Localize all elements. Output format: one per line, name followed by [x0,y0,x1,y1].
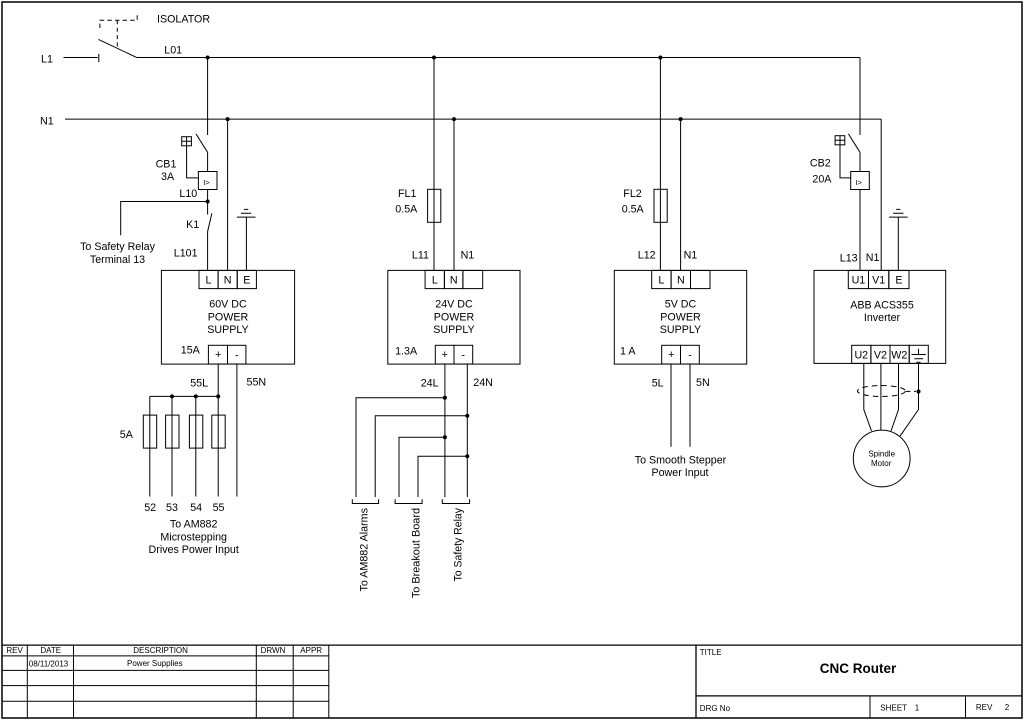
svg-text:60V DC: 60V DC [209,299,247,311]
wire L01 drop to FL1 [433,58,435,271]
revision table row lines [2,656,329,701]
PSU1 label 60V DC POWER SUPPLY [207,299,248,336]
svg-text:+: + [215,349,221,361]
svg-text:To Breakout Board: To Breakout Board [410,508,422,598]
wire 24L to breakout board [399,437,445,497]
svg-text:K1: K1 [186,219,199,231]
svg-text:N1: N1 [40,115,54,127]
svg-text:L11: L11 [412,250,429,262]
svg-text:N: N [224,275,232,287]
title block left divider [695,645,697,718]
svg-text:L12: L12 [638,249,656,261]
svg-text:CB2: CB2 [810,158,831,170]
svg-text:To Safety Relay: To Safety Relay [80,241,156,253]
wire 24L [444,364,446,497]
wire 24N [466,364,468,497]
svg-text:+: + [442,349,448,361]
wire N1 drop to PSU3 N [680,119,682,270]
junction fuse bus 2 [194,394,198,398]
junction earth shield tap [916,389,920,393]
svg-text:ISOLATOR: ISOLATOR [157,13,210,25]
svg-text:SUPPLY: SUPPLY [207,324,248,336]
svg-text:55: 55 [213,502,225,514]
svg-text:08/11/2013: 08/11/2013 [29,660,69,669]
junction 24N tap 2 [465,454,469,458]
svg-text:I>: I> [856,178,863,187]
junction on N1 at 60V branch [226,117,230,121]
wire 55L fuse bus [150,395,218,397]
wire 24L to AM882 alarms [356,398,445,497]
PSU3 label 5V DC POWER SUPPLY [660,299,701,336]
svg-text:DESCRIPTION: DESCRIPTION [133,646,188,655]
fuse F52 [143,415,156,448]
title block middle rule [696,695,1022,697]
svg-text:-: - [688,349,692,361]
svg-text:Microstepping: Microstepping [160,531,227,543]
junction on L01 at FL1 branch [432,56,436,60]
svg-text:L01: L01 [164,45,182,57]
svg-text:To AM882: To AM882 [170,519,218,531]
terminal bracket AM882 alarms [352,499,378,503]
wire 55N from PSU1 - [236,364,238,497]
inverter input terminals U1 V1 E [848,270,909,288]
fuse F54 [189,415,202,448]
wire fuse drop 54 [195,396,197,496]
svg-text:L13: L13 [840,252,858,264]
svg-text:24L: 24L [421,377,439,389]
wire L1 feed [64,57,98,59]
svg-text:REV: REV [6,646,23,655]
isolator linkage vertical (dashed) [116,20,118,48]
svg-text:CB1: CB1 [156,158,177,170]
svg-text:To Safety Relay: To Safety Relay [452,507,464,581]
revision table headers [6,646,322,655]
note To Safety Relay Terminal 13 [80,241,156,266]
junction fuse bus 3 [216,394,220,398]
wire L101 to PSU1 L terminal [207,232,209,271]
PSU3 input terminals L N blank [652,270,710,288]
junction 24L tap 2 [443,435,447,439]
svg-text:5L: 5L [652,378,664,390]
wire fuse drop 55 [217,396,219,496]
wire V2 phase to motor [880,363,882,430]
breaker CB1 aux link wire [187,146,199,178]
junction 24L tap 1 [443,396,447,400]
earth symbol in inverter output terminal [912,349,926,363]
svg-text:DRWN: DRWN [261,646,286,655]
wire 5L [670,364,672,447]
svg-text:FL2: FL2 [623,188,641,200]
breaker CB2 auxiliary contact box [835,136,845,145]
svg-text:SHEET: SHEET [880,704,907,713]
terminal bracket breakout board [395,499,422,503]
svg-text:N: N [677,275,685,287]
svg-text:POWER: POWER [434,311,475,323]
svg-text:2: 2 [1005,703,1010,712]
wire N1 bus [65,118,881,120]
wire 24N to breakout board [418,456,467,497]
svg-text:DATE: DATE [40,646,61,655]
junction on N1 at 24V branch [452,117,456,121]
motor M1 label Spindle Motor [868,450,895,468]
wire L10 [207,190,209,202]
revision table column lines [27,645,329,718]
note To AM882 Microstepping Drives Power Input [149,519,239,556]
svg-text:APPR: APPR [300,646,322,655]
wire N1 drop to PSU2 N [453,119,455,270]
svg-text:3A: 3A [161,171,175,183]
wire CB2 blade to trip unit [859,152,861,171]
wire into K1 [207,202,209,215]
svg-text:53: 53 [166,502,178,514]
svg-text:SUPPLY: SUPPLY [660,324,701,336]
svg-text:V2: V2 [874,349,887,361]
svg-text:54: 54 [190,502,202,514]
svg-text:1: 1 [915,704,920,713]
svg-text:To AM882 Alarms: To AM882 Alarms [359,508,371,592]
svg-text:L101: L101 [174,248,198,260]
svg-text:N1: N1 [461,249,475,261]
isolator switch blade [99,39,137,57]
junction on L01 at CB1 branch [206,56,210,60]
isolator fixed contact [98,54,100,63]
power supply PSU2 24V box [388,270,520,364]
svg-text:+: + [668,349,674,361]
earth symbol for inverter E terminal [889,209,908,270]
svg-text:0.5A: 0.5A [395,203,418,215]
svg-text:REV: REV [976,703,993,712]
svg-text:N: N [450,275,458,287]
breaker CB2 blade [848,134,860,152]
power supply PSU3 5V box [614,270,746,364]
svg-text:SUPPLY: SUPPLY [433,324,474,336]
sheet cell divider [869,696,871,718]
inverter output terminals U2 V2 W2 earth [852,345,929,363]
svg-text:0.5A: 0.5A [622,203,645,215]
svg-text:I>: I> [203,178,210,187]
svg-text:L: L [432,275,438,287]
title block top rule [2,644,1022,646]
motor M1 spindle circle [853,430,910,487]
svg-text:L: L [206,275,212,287]
svg-text:-: - [461,349,465,361]
svg-text:W2: W2 [891,349,907,361]
PSU1 output terminals + - [208,345,246,364]
wire W2 phase to motor [891,363,899,431]
cable shield ellipse (dashed) [858,386,906,397]
svg-text:Drives Power Input: Drives Power Input [149,544,239,556]
junction on N1 at 5V branch [679,117,683,121]
svg-text:L10: L10 [179,188,197,200]
junction 24N tap 1 [465,414,469,418]
svg-text:Power Input: Power Input [651,467,708,479]
svg-text:L1: L1 [41,54,53,66]
svg-text:20A: 20A [812,173,832,185]
svg-text:E: E [243,275,250,287]
wire 24N to AM882 alarms [375,416,467,497]
svg-text:Terminal 13: Terminal 13 [90,254,145,266]
wire fuse drop 53 [171,396,173,496]
svg-text:5A: 5A [120,429,134,441]
fuse FL1 [428,189,441,222]
PSU2 input terminals L N blank [425,270,483,288]
wire stub to safety relay [121,202,208,236]
wire 55L from PSU1 + [217,364,219,396]
breaker CB1 blade [196,134,208,152]
PSU1 input terminals L N E [199,270,256,288]
svg-text:Inverter: Inverter [864,312,901,324]
svg-text:1.3A: 1.3A [395,345,418,357]
svg-text:24N: 24N [473,377,493,389]
svg-text:Spindle: Spindle [868,450,895,459]
PSU3 output terminals + - [662,345,700,364]
svg-text:U2: U2 [854,349,868,361]
shield bond link (dashed) [906,390,916,392]
fuse F53 [166,415,179,448]
inverter label ABB ACS355 Inverter [850,299,914,324]
svg-text:TITLE: TITLE [700,648,722,657]
wire earth to motor [918,363,920,409]
svg-text:-: - [235,349,239,361]
svg-text:U1: U1 [852,275,866,287]
PSU2 output terminals + - [435,345,472,364]
power supply PSU1 60V box [161,270,294,364]
svg-text:5N: 5N [696,377,710,389]
svg-text:POWER: POWER [660,311,701,323]
breaker CB1 thermal trip box [198,172,217,190]
svg-text:55L: 55L [190,377,208,389]
svg-text:POWER: POWER [208,311,249,323]
rev cell divider [965,696,967,718]
wire fuse drop 52 [149,396,151,496]
label SHEET and number 1 [880,704,919,713]
PSU2 label 24V DC POWER SUPPLY [433,299,474,336]
svg-text:N1: N1 [866,252,880,264]
breaker CB2 aux link wire [840,145,851,178]
wire N1 drop to inverter V1 [880,119,882,270]
svg-text:Motor: Motor [871,459,892,468]
wire CB1 blade to trip unit [207,152,209,171]
isolator operating linkage (dashed) [100,13,137,28]
svg-text:L: L [658,275,664,287]
breaker CB2 thermal trip box [851,172,870,190]
wire U2 phase to motor [864,363,872,431]
svg-text:24V DC: 24V DC [435,299,473,311]
svg-text:To Smooth Stepper: To Smooth Stepper [635,454,727,466]
breaker CB1 auxiliary contact box [182,137,192,146]
svg-text:Power Supplies: Power Supplies [127,659,183,668]
fuse F55 [212,415,225,448]
fuse FL2 [654,189,667,222]
svg-text:CNC Router: CNC Router [820,661,897,676]
svg-text:15A: 15A [181,345,201,357]
svg-text:52: 52 [144,502,156,514]
wire L01 drop to FL2 [659,58,661,271]
svg-text:V1: V1 [872,275,885,287]
svg-text:E: E [895,275,902,287]
wire L13 to inverter U1 [859,190,861,271]
wire 5N [689,364,691,447]
wire earth slant to motor body [900,410,919,437]
relay contact K1 blade [208,213,212,231]
svg-text:55N: 55N [247,377,267,389]
terminal bracket safety relay [442,499,469,503]
svg-text:ABB ACS355: ABB ACS355 [850,299,914,311]
wire N1 drop to PSU1 N terminal [227,119,229,270]
label REV and number 2 [976,703,1010,712]
earth symbol for PSU1 E terminal [237,209,256,270]
wire L01 drop to CB1 [207,58,209,136]
svg-text:DRG No: DRG No [700,704,731,713]
junction L10 node [206,200,210,204]
junction fuse bus 1 [170,394,174,398]
svg-text:FL1: FL1 [398,188,416,200]
svg-text:1 A: 1 A [620,345,636,357]
svg-text:N1: N1 [684,249,698,261]
svg-text:5V DC: 5V DC [665,299,697,311]
wire L01 top bus [137,57,860,59]
inverter U1 ABB ACS355 box [814,270,946,363]
wire L01 drop to CB2 [859,58,861,136]
note To Smooth Stepper Power Input [635,454,727,479]
junction on L01 at FL2 branch [658,56,662,60]
